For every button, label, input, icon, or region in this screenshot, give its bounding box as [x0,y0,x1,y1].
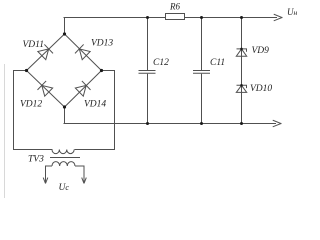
wire right loop to transformer [75,71,115,150]
wire diamond VD12 branch [27,71,65,108]
node VD9 top [240,16,243,19]
svg-text:VD12: VD12 [20,100,42,110]
svg-text:R6: R6 [169,1,180,11]
wire bridge bottom stem [64,107,66,124]
svg-text:VD13: VD13 [91,38,113,48]
svg-text:C12: C12 [153,58,169,68]
diode VD12 [37,81,53,97]
transformer TV3 secondary winding [52,150,74,154]
transformer TV3 primary winding [46,162,85,183]
zener diode VD10 [236,85,246,92]
node bridge top [63,32,66,35]
wire bottom rail [64,123,276,125]
node VD9 cathode [240,48,243,51]
wire diamond VD13 branch [65,34,102,71]
arrow output Uн [274,14,282,20]
svg-text:VD9: VD9 [252,46,270,56]
node bridge right [100,69,103,72]
wire bridge top stem [64,18,66,35]
svg-text:VD10: VD10 [250,84,272,94]
node C12 top [146,16,149,19]
capacitor C12 [139,18,156,124]
wire zener branch [241,18,243,124]
node C12 bottom [146,122,149,125]
node C11 bottom [200,122,203,125]
node VD10 bottom [240,122,243,125]
resistor R6 [166,14,185,20]
wire diamond VD14 branch [65,71,102,108]
svg-text:Uн: Uн [287,7,298,17]
diode VD14 [75,81,91,97]
node bridge bottom [63,105,66,108]
svg-text:C11: C11 [210,58,225,68]
wire top rail [64,17,165,19]
capacitor C11 [193,18,210,124]
svg-text:VD11: VD11 [23,40,44,50]
svg-text:VD14: VD14 [84,100,106,110]
transformer TV3 core [50,157,80,159]
svg-text:TV3: TV3 [28,155,44,165]
wire left loop to transformer [14,71,53,150]
arrow bottom rail [273,120,281,126]
arrow Uc right [82,178,87,184]
diode VD13 [75,44,91,60]
svg-text:Uc: Uc [59,183,70,193]
node bridge left [25,69,28,72]
arrow Uc left [43,178,48,184]
zener diode VD9 [236,49,246,56]
diode VD11 [37,44,53,60]
artifact faint left edge line [4,64,6,198]
node VD10 cathode [240,84,243,87]
wire diamond VD11 branch [27,34,65,71]
node C11 top [200,16,203,19]
